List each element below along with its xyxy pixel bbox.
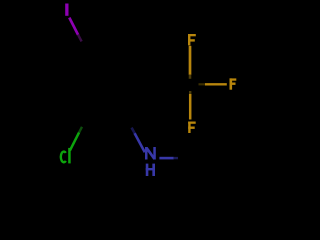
bond CF3-Fright fluorine half: [205, 83, 227, 85]
atom F (right of CF3): [230, 78, 237, 89]
bond N-CH3 (nitrogen-colored half): [159, 157, 173, 160]
atom F (top of CF3): [188, 34, 196, 45]
bond C1-N (nitrogen-colored half): [132, 128, 136, 135]
bond CF3-Fbottom (fluorine-colored half): [189, 91, 191, 95]
bond C1-N nitrogen half: [135, 133, 145, 152]
atom F (bottom of CF3): [188, 122, 196, 134]
bond CF3-Ftop carbon half (faint): [189, 75, 192, 79]
bond CF3-Fbottom fluorine half: [189, 94, 192, 120]
bond C2-Cl carbon half (faint): [79, 127, 82, 133]
bond CF3-Fright (fluorine-colored half): [199, 83, 206, 85]
atom N (amine label): [145, 147, 156, 160]
atom H (on N): [146, 164, 155, 176]
bond C4-I carbon half (faint): [78, 35, 82, 42]
bond CF3-Ftop (fluorine-colored half): [189, 46, 192, 75]
bond C4-I (iodine-colored half): [69, 18, 78, 35]
atom I (iodine label): [65, 4, 68, 16]
atom N diagonal stroke: [146, 148, 154, 159]
bond N-CH3 carbon half (faint): [174, 157, 178, 159]
bond C2-Cl (chlorine-colored half): [70, 132, 79, 150]
atom Cl (chlorine label): [61, 148, 70, 164]
